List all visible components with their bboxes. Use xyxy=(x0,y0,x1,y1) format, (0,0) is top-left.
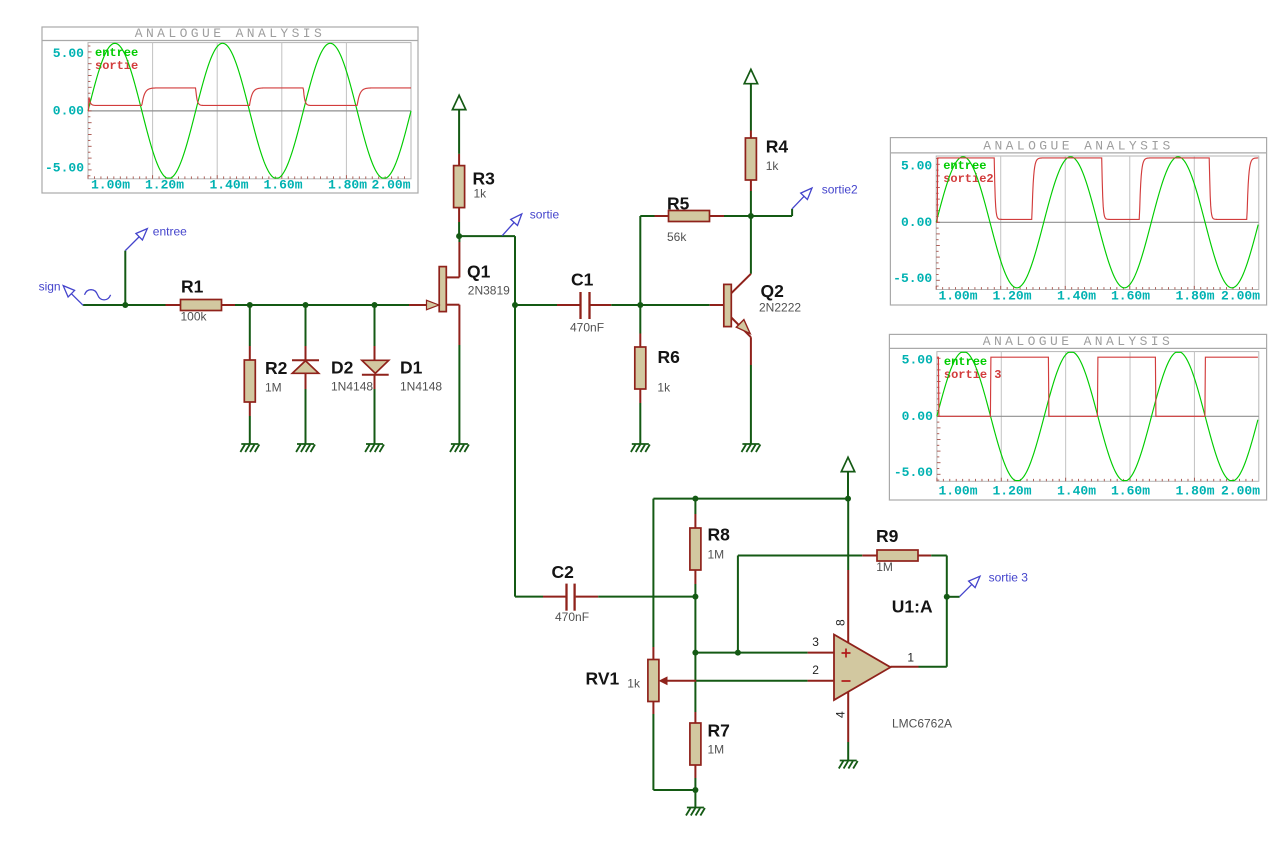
svg-text:1.60m: 1.60m xyxy=(1111,289,1150,304)
svg-text:8: 8 xyxy=(834,619,848,626)
svg-text:R5: R5 xyxy=(667,194,690,214)
svg-text:Q1: Q1 xyxy=(467,262,491,282)
svg-text:1.40m: 1.40m xyxy=(1057,289,1096,304)
svg-text:entree: entree xyxy=(944,355,987,369)
svg-text:R6: R6 xyxy=(658,347,681,367)
svg-text:ANALOGUE ANALYSIS: ANALOGUE ANALYSIS xyxy=(983,138,1173,153)
svg-text:entree: entree xyxy=(153,224,187,238)
svg-text:U1:A: U1:A xyxy=(892,597,933,617)
svg-text:5.00: 5.00 xyxy=(902,352,933,367)
svg-text:2N3819: 2N3819 xyxy=(468,284,510,298)
svg-text:-5.00: -5.00 xyxy=(45,160,84,175)
svg-text:2: 2 xyxy=(812,663,819,677)
svg-text:1.00m: 1.00m xyxy=(938,289,977,304)
svg-text:1k: 1k xyxy=(766,159,780,173)
svg-text:470nF: 470nF xyxy=(570,321,604,335)
svg-text:1.60m: 1.60m xyxy=(263,178,302,193)
svg-text:C1: C1 xyxy=(571,270,594,290)
svg-text:2.00m: 2.00m xyxy=(1221,484,1260,499)
svg-text:1.00m: 1.00m xyxy=(938,484,977,499)
svg-text:1k: 1k xyxy=(657,381,671,395)
svg-text:sign: sign xyxy=(39,280,61,294)
svg-text:R1: R1 xyxy=(181,277,204,297)
svg-text:0.00: 0.00 xyxy=(902,409,933,424)
svg-text:56k: 56k xyxy=(667,230,687,244)
svg-text:1.00m: 1.00m xyxy=(91,178,130,193)
svg-text:1.20m: 1.20m xyxy=(992,289,1031,304)
svg-text:0.00: 0.00 xyxy=(901,215,932,230)
svg-text:2N2222: 2N2222 xyxy=(759,301,801,315)
svg-text:ANALOGUE ANALYSIS: ANALOGUE ANALYSIS xyxy=(135,26,325,41)
svg-text:1M: 1M xyxy=(708,548,725,562)
svg-text:Q2: Q2 xyxy=(761,281,785,301)
svg-text:entree: entree xyxy=(95,46,138,60)
svg-text:1.20m: 1.20m xyxy=(145,178,184,193)
svg-text:1.40m: 1.40m xyxy=(1057,484,1096,499)
svg-text:3: 3 xyxy=(812,635,819,649)
svg-text:R2: R2 xyxy=(265,358,288,378)
svg-text:1.60m: 1.60m xyxy=(1111,484,1150,499)
svg-text:R3: R3 xyxy=(473,169,496,189)
svg-text:-5.00: -5.00 xyxy=(893,271,932,286)
svg-text:2.00m: 2.00m xyxy=(1221,289,1260,304)
svg-text:1k: 1k xyxy=(474,187,488,201)
svg-text:100k: 100k xyxy=(181,310,208,324)
svg-text:1.80m: 1.80m xyxy=(1175,289,1214,304)
svg-text:1k: 1k xyxy=(627,677,641,691)
svg-text:1M: 1M xyxy=(876,560,893,574)
svg-text:1.80m: 1.80m xyxy=(1175,484,1214,499)
svg-text:1.80m: 1.80m xyxy=(328,178,367,193)
svg-text:sortie: sortie xyxy=(530,208,560,222)
svg-text:-5.00: -5.00 xyxy=(894,465,933,480)
svg-text:ANALOGUE ANALYSIS: ANALOGUE ANALYSIS xyxy=(983,334,1173,349)
svg-text:sortie 3: sortie 3 xyxy=(944,368,1002,382)
svg-text:1N4148: 1N4148 xyxy=(331,380,373,394)
svg-text:R4: R4 xyxy=(766,137,789,157)
svg-text:5.00: 5.00 xyxy=(53,46,84,61)
svg-text:R7: R7 xyxy=(708,721,730,741)
svg-text:entree: entree xyxy=(943,159,986,173)
svg-text:0.00: 0.00 xyxy=(53,103,84,118)
svg-text:1N4148: 1N4148 xyxy=(400,380,442,394)
svg-text:4: 4 xyxy=(834,711,848,718)
svg-text:sortie: sortie xyxy=(95,59,138,73)
svg-text:LMC6762A: LMC6762A xyxy=(892,717,952,731)
svg-text:1: 1 xyxy=(907,651,914,665)
svg-text:R8: R8 xyxy=(708,525,731,545)
svg-text:5.00: 5.00 xyxy=(901,158,932,173)
svg-text:D1: D1 xyxy=(400,358,423,378)
svg-text:1.20m: 1.20m xyxy=(992,484,1031,499)
svg-text:470nF: 470nF xyxy=(555,610,589,624)
svg-text:D2: D2 xyxy=(331,358,354,378)
svg-text:1M: 1M xyxy=(708,743,725,757)
svg-text:1M: 1M xyxy=(265,381,282,395)
svg-text:1.40m: 1.40m xyxy=(209,178,248,193)
svg-text:RV1: RV1 xyxy=(586,669,620,689)
svg-text:sortie 3: sortie 3 xyxy=(989,571,1029,585)
svg-text:C2: C2 xyxy=(552,562,575,582)
svg-text:sortie2: sortie2 xyxy=(822,182,858,196)
svg-text:2.00m: 2.00m xyxy=(371,178,410,193)
svg-text:R9: R9 xyxy=(876,526,899,546)
